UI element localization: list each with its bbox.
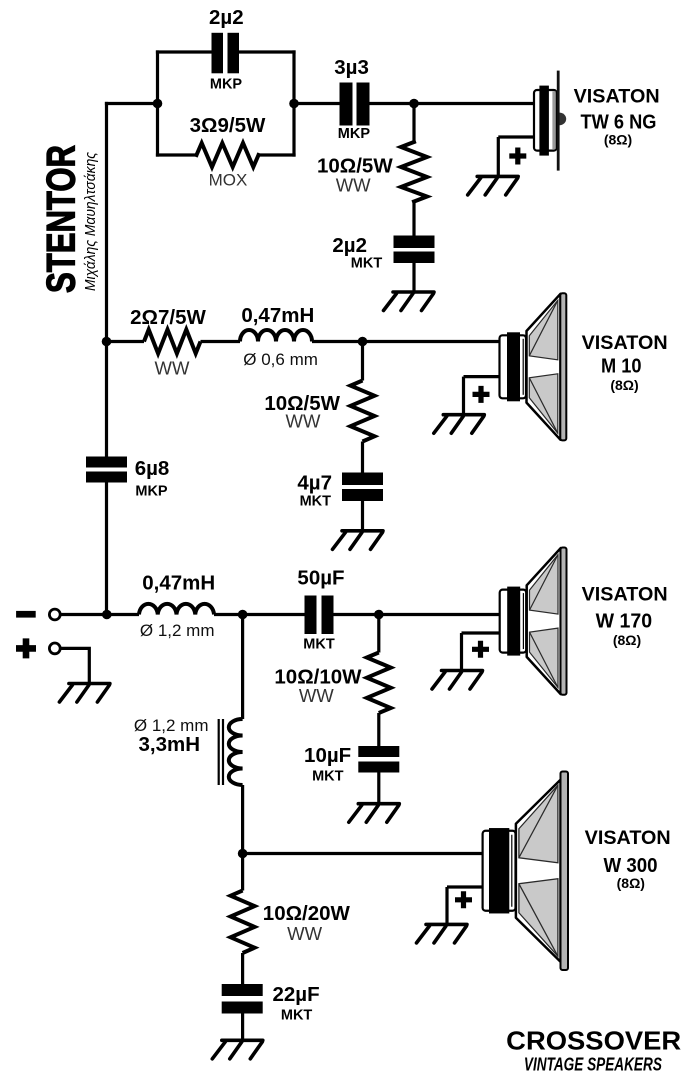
- wire 3,3mH to node I: [241, 785, 244, 891]
- wire tweeter negative terminal: [498, 137, 534, 176]
- wire 22µF to ground: [241, 1014, 244, 1041]
- ground tweeter: [468, 176, 519, 195]
- wire left vertical bus upper: [105, 104, 108, 457]
- svg-text:VISATON: VISATON: [585, 827, 671, 849]
- capacitor 22µF MKT plates: [222, 984, 263, 1014]
- svg-text:3,3mH: 3,3mH: [138, 733, 200, 756]
- svg-text:W 300: W 300: [604, 854, 658, 877]
- svg-text:M 10: M 10: [601, 355, 642, 378]
- node H junction dot: [374, 610, 384, 620]
- svg-text:WW: WW: [155, 358, 190, 379]
- wire node E down: [361, 342, 364, 381]
- svg-text:STENTOR: STENTOR: [40, 145, 84, 293]
- capacitor 50µF MKT plates: [305, 596, 334, 635]
- wire parallel-box right side: [292, 52, 295, 155]
- speaker TW 6 NG magnet: [534, 86, 557, 156]
- plus sign W170: [472, 641, 489, 658]
- wire resistor to 4µ7: [361, 442, 364, 473]
- resistor 10Ω/5W M10 branch: [351, 381, 375, 442]
- node I junction dot: [238, 849, 248, 859]
- svg-text:22µF: 22µF: [273, 983, 320, 1006]
- svg-text:VISATON: VISATON: [582, 584, 668, 606]
- ground subwoofer filter: [212, 1040, 262, 1059]
- wire parallel-box top side: [158, 50, 295, 53]
- wire M10 negative terminal: [464, 377, 500, 415]
- terminal plus circle: [49, 643, 60, 654]
- svg-text:Μιχάλης Μαυηλτσάκης: Μιχάλης Μαυηλτσάκης: [82, 151, 99, 291]
- svg-text:(8Ω): (8Ω): [604, 132, 632, 148]
- svg-text:Ø 0,6 mm: Ø 0,6 mm: [243, 350, 318, 369]
- wire inductor to 50µF: [214, 613, 305, 616]
- node G junction dot: [238, 610, 248, 620]
- ground M10: [434, 415, 485, 434]
- wire node H down: [377, 615, 380, 653]
- wire mid rail left: [107, 340, 145, 343]
- wire resistor to 22µF: [241, 953, 244, 984]
- svg-text:VISATON: VISATON: [574, 86, 660, 108]
- capacitor 4µ7 MKT plates: [342, 473, 383, 502]
- resistor 2Ω7/5W: [144, 330, 201, 354]
- ground M10 filter: [333, 531, 384, 550]
- svg-text:10Ω/20W: 10Ω/20W: [263, 902, 351, 925]
- svg-text:MKP: MKP: [338, 126, 371, 142]
- wire parallel-box bottom side: [158, 153, 295, 156]
- speaker W300: [483, 771, 568, 970]
- wire node C down to resistor: [412, 104, 415, 143]
- svg-text:WW: WW: [287, 923, 322, 944]
- resistor 10Ω/20W: [231, 891, 255, 954]
- wire node G down to 3,3mH: [241, 615, 244, 720]
- svg-text:VINTAGE SPEAKERS: VINTAGE SPEAKERS: [524, 1054, 662, 1075]
- wire inductor to M10: [312, 340, 500, 343]
- svg-text:W 170: W 170: [596, 610, 653, 633]
- node A junction dot: [153, 99, 163, 109]
- minus sign input: [16, 611, 36, 618]
- wire W300 rail: [243, 852, 483, 855]
- svg-text:MKP: MKP: [210, 77, 243, 93]
- svg-text:MOX: MOX: [209, 171, 248, 190]
- speaker W170: [500, 548, 567, 695]
- wire 4µ7 to ground: [361, 501, 364, 531]
- svg-text:MKT: MKT: [281, 1008, 313, 1024]
- svg-text:VISATON: VISATON: [582, 332, 668, 354]
- inductor 3,3mH core lines: [219, 719, 223, 785]
- wire woofer rail left: [60, 613, 139, 616]
- wire node B to 3µ3: [294, 102, 340, 105]
- svg-text:50µF: 50µF: [297, 567, 344, 590]
- capacitor 2µ2 MKT plates: [394, 236, 435, 264]
- capacitor 6µ8 MKP plates: [86, 457, 127, 483]
- inductor 0,47mH input: [139, 604, 214, 615]
- svg-text:MKT: MKT: [300, 494, 332, 510]
- ground input: [59, 684, 110, 703]
- svg-text:WW: WW: [336, 175, 371, 196]
- node F junction dot: [102, 610, 112, 620]
- wire top-left corner from bus to node A: [107, 102, 158, 105]
- plus sign W300: [455, 891, 472, 908]
- wire resistor to inductor: [201, 340, 241, 343]
- svg-text:WW: WW: [286, 411, 321, 432]
- wire parallel-box left side: [156, 52, 159, 155]
- svg-text:2µ2: 2µ2: [209, 6, 244, 29]
- wire resistor to 2µ2 MKT: [412, 202, 415, 236]
- plus sign M10: [473, 386, 490, 403]
- node D junction dot: [102, 337, 112, 347]
- wire 10µF to ground: [377, 773, 380, 804]
- speaker TW 6 NG faceplate: [557, 71, 560, 171]
- svg-text:MKT: MKT: [303, 637, 335, 653]
- capacitor 10µF MKT plates: [358, 746, 399, 773]
- capacitor 3µ3 MKP plates: [340, 83, 370, 126]
- svg-text:10µF: 10µF: [304, 744, 351, 767]
- svg-text:0,47mH: 0,47mH: [142, 572, 215, 595]
- ground W300: [417, 924, 468, 943]
- ground W170 filter: [349, 804, 400, 823]
- wire resistor to 10µF: [377, 713, 380, 746]
- resistor 3Ω9/5W zigzag: [197, 143, 259, 167]
- svg-text:(8Ω): (8Ω): [617, 875, 645, 891]
- svg-text:WW: WW: [299, 685, 334, 706]
- plus sign tweeter: [509, 148, 526, 165]
- svg-text:2Ω7/5W: 2Ω7/5W: [130, 306, 206, 329]
- node E junction dot: [358, 337, 368, 347]
- terminal minus circle: [49, 609, 60, 620]
- inductor 0,47mH mid: [240, 330, 312, 342]
- wire 2µ2 MKT to ground: [412, 263, 415, 292]
- resistor 10Ω/5W tweeter branch: [401, 142, 427, 202]
- node B junction dot: [289, 99, 299, 109]
- ground tweeter filter: [384, 292, 435, 311]
- svg-text:MKP: MKP: [135, 484, 168, 500]
- capacitor 2µ2 MKP plates: [212, 33, 240, 74]
- svg-text:MKT: MKT: [312, 769, 344, 785]
- svg-text:2µ2: 2µ2: [332, 234, 367, 257]
- plus sign input: [16, 638, 36, 658]
- node C junction dot: [409, 99, 419, 109]
- svg-text:3µ3: 3µ3: [334, 56, 369, 79]
- svg-text:Ø 1,2 mm: Ø 1,2 mm: [140, 621, 215, 640]
- speaker M10: [500, 293, 567, 440]
- svg-text:TW 6 NG: TW 6 NG: [581, 111, 657, 134]
- resistor 10Ω/10W: [367, 653, 391, 714]
- svg-text:(8Ω): (8Ω): [610, 377, 638, 393]
- inductor 3,3mH coil: [229, 719, 243, 785]
- svg-text:CROSSOVER: CROSSOVER: [506, 1026, 681, 1056]
- wire W170 negative terminal: [462, 633, 500, 671]
- svg-text:(8Ω): (8Ω): [613, 632, 641, 648]
- wire plus terminal to ground: [60, 648, 89, 682]
- ground W170: [432, 671, 483, 690]
- svg-text:0,47mH: 0,47mH: [241, 304, 314, 327]
- wire 3µ3 to tweeter: [370, 102, 535, 105]
- svg-text:MKT: MKT: [351, 256, 383, 272]
- svg-text:4µ7: 4µ7: [297, 472, 332, 495]
- wire W300 negative terminal: [447, 887, 483, 924]
- wire 50µF to W170: [334, 613, 500, 616]
- svg-text:6µ8: 6µ8: [135, 457, 170, 480]
- speaker TW 6 NG dome: [560, 113, 567, 126]
- svg-text:3Ω9/5W: 3Ω9/5W: [190, 114, 266, 137]
- wire left vertical bus lower: [105, 483, 108, 615]
